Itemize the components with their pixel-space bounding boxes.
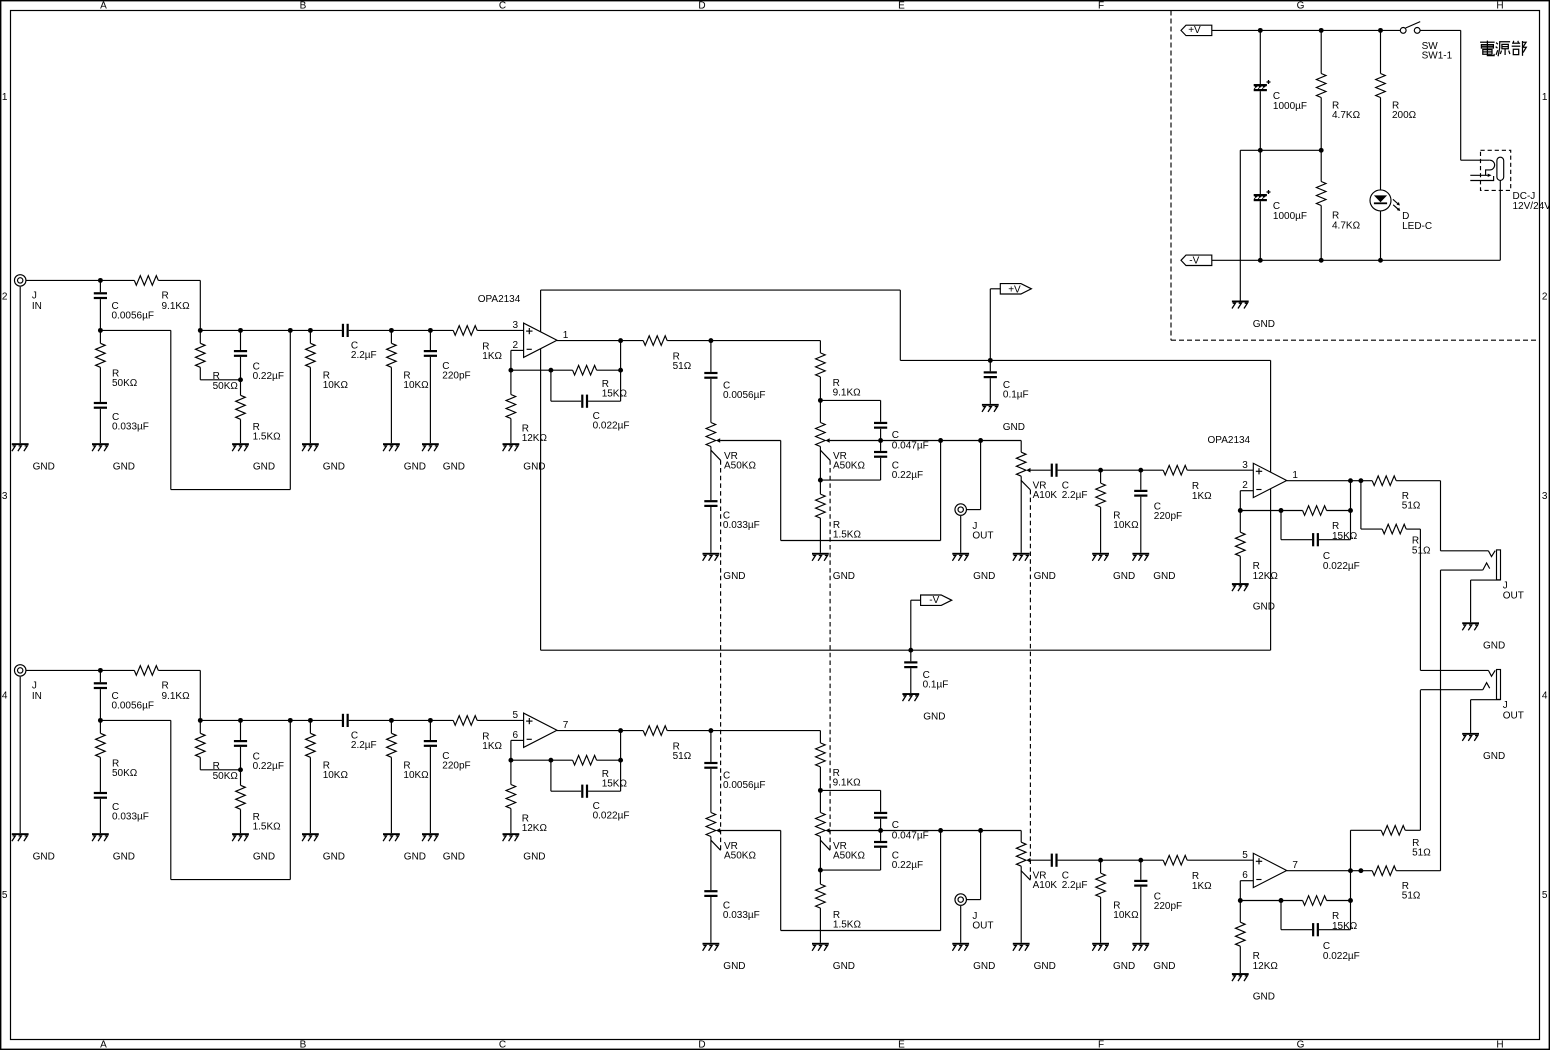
resistor R 1.5K bass — [816, 870, 862, 943]
svg-text:2.2µF: 2.2µF — [1062, 490, 1088, 501]
svg-text:GND: GND — [1003, 422, 1025, 433]
capacitor C 0.033uF — [94, 402, 149, 443]
svg-text:1000µF: 1000µF — [1273, 101, 1307, 112]
capacitor C 0.022uF feedback stage2 — [1281, 511, 1360, 572]
gang link volume pots — [1021, 480, 1031, 880]
capacitor C 0.22uF — [234, 330, 284, 382]
connector J IN ch1 — [14, 275, 100, 444]
svg-text:GND: GND — [443, 462, 465, 473]
svg-text:R: R — [162, 290, 169, 301]
power section boundary dashed — [1171, 11, 1540, 341]
resistor R 51 stage1 out — [643, 336, 713, 372]
wire switch to DC jack — [1461, 30, 1490, 160]
resistor R 200 — [1376, 30, 1417, 190]
svg-text:GND: GND — [1253, 319, 1275, 330]
capacitor C 220pF — [424, 330, 471, 443]
svg-text:51Ω: 51Ω — [673, 361, 692, 372]
resistor R 12K stage2 — [1236, 511, 1279, 584]
power flag +V (supply) — [1181, 25, 1400, 36]
capacitor C 0.022uF feedback — [551, 760, 630, 821]
svg-text:1.5KΩ: 1.5KΩ — [253, 822, 282, 833]
svg-text:A50KΩ: A50KΩ — [724, 851, 756, 862]
svg-text:H: H — [1496, 0, 1503, 11]
svg-text:50KΩ: 50KΩ — [213, 771, 239, 782]
svg-text:GND: GND — [923, 711, 945, 722]
resistor R 1.5K — [236, 380, 281, 443]
svg-text:LED-C: LED-C — [1402, 221, 1432, 232]
capacitor C 220pF stage2 — [1134, 860, 1182, 943]
svg-text:1KΩ: 1KΩ — [482, 741, 502, 752]
svg-text:GND: GND — [1153, 571, 1175, 582]
svg-text:12KΩ: 12KΩ — [522, 823, 548, 834]
ground (-V decoupling) — [902, 693, 945, 722]
svg-text:51Ω: 51Ω — [673, 751, 692, 762]
svg-text:9.1KΩ: 9.1KΩ — [833, 777, 862, 788]
wire stage2 bus — [1101, 468, 1254, 473]
resistor R 9.1K bass — [711, 731, 861, 793]
svg-text:0.22µF: 0.22µF — [892, 860, 923, 871]
wire detour under — [100, 328, 292, 490]
svg-text:GND: GND — [1113, 961, 1135, 972]
resistor R 50K shunt — [96, 720, 138, 792]
svg-text:1KΩ: 1KΩ — [1192, 491, 1212, 502]
svg-text:G: G — [1297, 1040, 1305, 1050]
svg-text:0.022µF: 0.022µF — [1323, 951, 1360, 962]
capacitor C 2.2uF coupling — [342, 714, 377, 751]
svg-text:50KΩ: 50KΩ — [112, 768, 138, 779]
svg-text:2.2µF: 2.2µF — [351, 740, 377, 751]
svg-text:SW1-1: SW1-1 — [1422, 51, 1453, 62]
resistor R 4.7K upper — [1316, 30, 1360, 150]
svg-text:C: C — [892, 430, 899, 441]
wire output node — [557, 338, 643, 373]
connector J OUT pre — [955, 831, 994, 943]
ground (R 1.5K bass) — [812, 943, 855, 972]
svg-text:4.7KΩ: 4.7KΩ — [1332, 110, 1361, 121]
svg-text:10KΩ: 10KΩ — [323, 380, 349, 391]
wire output node stage2 — [1287, 478, 1364, 510]
svg-text:GND: GND — [404, 462, 426, 473]
svg-text:3: 3 — [1542, 491, 1548, 502]
resistor R 50K series-jog — [196, 330, 243, 392]
resistor R 50K series-jog — [196, 720, 243, 782]
svg-text:50KΩ: 50KΩ — [213, 381, 239, 392]
svg-text:A: A — [100, 1040, 107, 1050]
power flag +V (amp) — [988, 284, 1032, 363]
svg-text:12KΩ: 12KΩ — [1253, 571, 1279, 582]
resistor R 15K feedback — [511, 755, 628, 789]
resistor R 51 ch1 to jack2 — [1361, 481, 1431, 671]
capacitor C 0.0056uF treble — [704, 731, 765, 813]
resistor R 51 stage1 out — [643, 726, 713, 762]
wire mid node — [881, 438, 1022, 452]
ground (+V decoupling) — [982, 404, 1025, 433]
svg-text:0.047µF: 0.047µF — [892, 831, 929, 842]
svg-text:1: 1 — [1292, 470, 1298, 481]
svg-text:7: 7 — [1292, 860, 1298, 871]
svg-text:GND: GND — [1483, 751, 1505, 762]
wire detour under — [100, 718, 292, 880]
svg-text:4.7KΩ: 4.7KΩ — [1332, 220, 1361, 231]
svg-text:2: 2 — [1542, 292, 1548, 303]
svg-text:GND: GND — [1483, 641, 1505, 652]
ground (J IN) — [12, 443, 55, 472]
ground (R 12K stage2) — [1232, 973, 1275, 1002]
svg-text:7: 7 — [563, 720, 569, 731]
svg-text:0.033µF: 0.033µF — [723, 910, 760, 921]
resistor R 12K — [506, 370, 547, 444]
svg-text:GND: GND — [33, 462, 55, 473]
capacitor C 0.1uF +V decoupling — [984, 360, 1029, 404]
resistor R 9.1K bass — [711, 341, 861, 403]
wire output node stage2 — [1287, 868, 1364, 873]
resistor R 51 ch2 to jack1 ring — [1361, 570, 1441, 902]
svg-text:GND: GND — [833, 571, 855, 582]
svg-text:OUT: OUT — [1503, 591, 1524, 602]
svg-text:J: J — [32, 290, 37, 301]
power flag -V (amp) — [908, 595, 951, 653]
ground (R 10K b) — [383, 833, 426, 862]
svg-text:12KΩ: 12KΩ — [1253, 961, 1279, 972]
svg-text:0.1µF: 0.1µF — [1003, 390, 1029, 401]
svg-text:GND: GND — [1034, 961, 1056, 972]
svg-text:GND: GND — [323, 462, 345, 473]
svg-text:GND: GND — [323, 852, 345, 863]
svg-text:51Ω: 51Ω — [1412, 545, 1431, 556]
capacitor C 220pF — [424, 720, 471, 833]
svg-text:GND: GND — [973, 571, 995, 582]
svg-text:4: 4 — [1542, 691, 1548, 702]
potentiometer VR A50K bass — [816, 400, 881, 482]
svg-text:1KΩ: 1KΩ — [482, 351, 502, 362]
op-amp U1b OPA2134 label — [1208, 435, 1251, 446]
svg-text:50KΩ: 50KΩ — [112, 378, 138, 389]
wire -in stage2 — [1238, 491, 1253, 513]
svg-text:GND: GND — [723, 961, 745, 972]
svg-text:A10K: A10K — [1033, 490, 1058, 501]
ground (R 1.5K) — [232, 443, 275, 472]
ground (R 1.5K) — [232, 833, 275, 862]
ground (R 12K stage2) — [1232, 583, 1275, 612]
svg-text:10KΩ: 10KΩ — [403, 770, 429, 781]
resistor R 4.7K lower — [1316, 150, 1360, 260]
wire -in stage2 — [1238, 881, 1253, 903]
svg-text:220pF: 220pF — [442, 371, 470, 382]
resistor R 9.1K input — [100, 276, 200, 312]
svg-text:GND: GND — [113, 462, 135, 473]
resistor R 10K stage2 — [1096, 470, 1139, 553]
svg-text:2: 2 — [1242, 480, 1248, 491]
svg-text:1KΩ: 1KΩ — [1192, 881, 1212, 892]
svg-text:15KΩ: 15KΩ — [602, 389, 628, 400]
svg-text:A: A — [100, 0, 107, 11]
capacitor C 2.2uF coupling — [342, 324, 377, 361]
resistor R 12K — [506, 760, 547, 834]
capacitor C 0.022uF feedback — [551, 370, 630, 431]
potentiometer VR A50K bass — [816, 790, 881, 872]
capacitor C 0.033uF treble — [704, 500, 760, 553]
resistor R 10K stage2 — [1096, 860, 1139, 943]
svg-text:0.1µF: 0.1µF — [923, 680, 949, 691]
connector J IN ch2 — [14, 665, 100, 834]
svg-text:IN: IN — [32, 691, 42, 702]
svg-text:GND: GND — [523, 462, 545, 473]
capacitor C 0.033uF — [94, 792, 149, 833]
svg-text:3: 3 — [2, 491, 8, 502]
op-amp stage2 pins 3/2/1 — [1242, 460, 1298, 498]
svg-text:1: 1 — [1542, 92, 1548, 103]
svg-text:10KΩ: 10KΩ — [1113, 910, 1139, 921]
resistor R 10K b — [387, 330, 430, 443]
svg-text:GND: GND — [404, 852, 426, 863]
capacitor C 2.2uF out-coupling — [1051, 854, 1103, 891]
ground (R 10K a) — [302, 833, 345, 862]
svg-text:10KΩ: 10KΩ — [323, 770, 349, 781]
op-amp stage2 pins 5/6/7 — [1242, 850, 1298, 888]
resistor R 9.1K input — [100, 666, 200, 702]
resistor R 1K stage2 — [1163, 855, 1212, 891]
ground (R 10K stage2) — [1092, 553, 1135, 582]
capacitor C 0.0056uF input — [94, 280, 154, 330]
diode D LED-C — [1370, 190, 1432, 260]
capacitor C 1000uF lower — [1254, 150, 1307, 260]
ground (R 12K) — [503, 443, 546, 472]
svg-text:IN: IN — [32, 301, 42, 312]
svg-text:3: 3 — [1242, 460, 1248, 471]
svg-text:GND: GND — [1113, 571, 1135, 582]
svg-text:10KΩ: 10KΩ — [403, 380, 429, 391]
svg-text:0.0056µF: 0.0056µF — [112, 310, 154, 321]
svg-text:1.5KΩ: 1.5KΩ — [833, 919, 862, 930]
wire mid rail — [1240, 148, 1323, 301]
svg-text:12V/24V: 12V/24V — [1513, 201, 1550, 212]
capacitor C 0.033uF treble — [704, 890, 760, 943]
ground (jack1) — [1462, 622, 1505, 651]
svg-text:6: 6 — [513, 730, 519, 741]
svg-text:C: C — [499, 0, 506, 11]
op-amp U1a OPA2134 label — [478, 294, 521, 305]
svg-text:E: E — [898, 1040, 905, 1050]
capacitor C 0.1uF -V decoupling — [904, 650, 948, 693]
capacitor C 1000uF upper — [1254, 30, 1307, 150]
svg-text:D: D — [698, 1040, 705, 1050]
connector J OUT pre — [955, 441, 994, 553]
svg-text:2.2µF: 2.2µF — [1062, 880, 1088, 891]
resistor R 12K stage2 — [1236, 901, 1279, 974]
potentiometer VR A10K volume — [1016, 842, 1057, 943]
svg-text:C: C — [892, 820, 899, 831]
svg-text:OUT: OUT — [972, 920, 993, 931]
svg-text:0.022µF: 0.022µF — [593, 811, 630, 822]
connector DC-J barrel jack — [1470, 150, 1550, 260]
potentiometer VR A50K treble — [706, 423, 781, 501]
svg-text:220pF: 220pF — [1154, 511, 1182, 522]
ground (VR A10K) — [1013, 943, 1056, 972]
resistor R 51 ch2 to jack2 ring — [1351, 690, 1432, 871]
svg-text:GND: GND — [253, 462, 275, 473]
wire main bus — [198, 718, 524, 723]
potentiometer VR A50K treble — [706, 813, 781, 891]
svg-text:GND: GND — [973, 961, 995, 972]
svg-text:1000µF: 1000µF — [1273, 211, 1307, 222]
svg-text:0.0056µF: 0.0056µF — [723, 780, 765, 791]
capacitor C 0.047uF bass — [820, 790, 928, 841]
wire -in — [508, 350, 523, 372]
svg-text:0.022µF: 0.022µF — [593, 421, 630, 432]
wire treble wiper to out node — [781, 441, 941, 541]
svg-text:0.22µF: 0.22µF — [253, 761, 284, 772]
svg-text:0.033µF: 0.033µF — [723, 520, 760, 531]
svg-text:0.22µF: 0.22µF — [253, 371, 284, 382]
svg-text:0.0056µF: 0.0056µF — [112, 700, 154, 711]
resistor R 1K to +in — [453, 716, 502, 753]
svg-text:2.2µF: 2.2µF — [351, 350, 377, 361]
op-amp stage1 pins 3/2/1 — [513, 320, 569, 358]
ground (VR A10K) — [1013, 553, 1056, 582]
capacitor C 2.2uF out-coupling — [1051, 464, 1103, 501]
svg-text:GND: GND — [443, 852, 465, 863]
svg-text:5: 5 — [1242, 850, 1248, 861]
svg-text:GND: GND — [833, 961, 855, 972]
wire — [199, 280, 201, 330]
capacitor C 0.022uF feedback stage2 — [1281, 901, 1360, 962]
svg-text:GND: GND — [1253, 991, 1275, 1002]
resistor R 1.5K — [236, 770, 281, 833]
svg-text:OUT: OUT — [972, 530, 993, 541]
svg-text:GND: GND — [1253, 601, 1275, 612]
node input junction — [98, 278, 103, 283]
svg-text:51Ω: 51Ω — [1412, 848, 1431, 859]
resistor R 15K feedback stage2 — [1240, 506, 1357, 542]
capacitor C 0.22uF bass — [820, 441, 923, 482]
svg-text:GND: GND — [1153, 961, 1175, 972]
ground (C 0.033uF) — [92, 833, 135, 862]
svg-text:10KΩ: 10KΩ — [1113, 520, 1139, 531]
power flag -V (supply) — [1181, 255, 1500, 266]
svg-text:15KΩ: 15KΩ — [602, 779, 628, 790]
svg-text:E: E — [898, 0, 905, 11]
svg-text:6: 6 — [1242, 870, 1248, 881]
resistor R 51 ch1 tip — [1361, 476, 1441, 551]
svg-text:0.0056µF: 0.0056µF — [723, 390, 765, 401]
svg-text:R: R — [162, 680, 169, 691]
wire stage2 bus — [1101, 858, 1254, 863]
svg-text:220pF: 220pF — [442, 761, 470, 772]
ground (power) — [1232, 301, 1275, 330]
node bus-left junction — [98, 328, 103, 333]
svg-text:200Ω: 200Ω — [1392, 110, 1417, 121]
svg-text:0.033µF: 0.033µF — [112, 422, 149, 433]
power section title 電源部 — [1480, 41, 1526, 57]
svg-text:0.047µF: 0.047µF — [892, 441, 929, 452]
svg-text:9.1KΩ: 9.1KΩ — [162, 301, 191, 312]
switch SW SW1-1 — [1400, 22, 1460, 62]
svg-text:GND: GND — [1034, 571, 1056, 582]
svg-text:5: 5 — [1542, 890, 1548, 901]
svg-text:0.033µF: 0.033µF — [112, 812, 149, 823]
svg-text:OPA2134: OPA2134 — [1208, 435, 1251, 446]
gang link treble pots — [711, 450, 721, 850]
capacitor C 0.22uF bass — [820, 831, 923, 872]
ground (R 10K b) — [383, 443, 426, 472]
resistor R 10K b — [387, 720, 430, 833]
svg-text:A50KΩ: A50KΩ — [724, 461, 756, 472]
svg-text:1.5KΩ: 1.5KΩ — [833, 529, 862, 540]
ground (R 10K stage2) — [1092, 943, 1135, 972]
resistor R 1.5K bass — [816, 480, 862, 553]
wire mid node — [881, 828, 1022, 842]
svg-text:J: J — [32, 680, 37, 691]
ground (J OUT pre) — [952, 553, 995, 582]
connector J OUT jack2 — [1420, 670, 1523, 733]
node input junction — [98, 668, 103, 673]
svg-text:GND: GND — [33, 852, 55, 863]
svg-text:H: H — [1496, 1040, 1503, 1050]
svg-text:9.1KΩ: 9.1KΩ — [833, 387, 862, 398]
ground (J OUT pre) — [952, 943, 995, 972]
op-amp stage1 pins 5/6/7 — [513, 710, 569, 748]
wire treble wiper to out node — [781, 831, 941, 931]
svg-text:9.1KΩ: 9.1KΩ — [162, 691, 191, 702]
svg-text:-V: -V — [929, 595, 939, 606]
svg-text:A50KΩ: A50KΩ — [833, 851, 865, 862]
svg-text:A10K: A10K — [1033, 880, 1058, 891]
ground (jack2) — [1462, 733, 1505, 762]
svg-text:4: 4 — [2, 691, 8, 702]
svg-text:1: 1 — [563, 330, 569, 341]
capacitor C 0.047uF bass — [820, 400, 928, 451]
svg-text:0.022µF: 0.022µF — [1323, 561, 1360, 572]
ground (R 10K a) — [302, 443, 345, 472]
resistor R 1K to +in — [453, 326, 502, 363]
svg-text:1: 1 — [2, 92, 8, 103]
svg-text:OPA2134: OPA2134 — [478, 294, 521, 305]
svg-text:F: F — [1098, 0, 1104, 11]
gang link bass pots — [820, 450, 830, 850]
resistor R 15K feedback stage2 — [1240, 871, 1357, 932]
ground (R 1.5K bass) — [812, 553, 855, 582]
node bus-left junction — [98, 718, 103, 723]
ground (C 220pF) — [422, 443, 465, 472]
ground (J IN) — [12, 833, 55, 862]
capacitor C 0.0056uF treble — [704, 341, 765, 423]
svg-text:51Ω: 51Ω — [1402, 891, 1421, 902]
svg-text:G: G — [1297, 0, 1305, 11]
ground (C 220pF stage2) — [1132, 943, 1175, 972]
svg-text:5: 5 — [513, 710, 519, 721]
ground (treble pot) — [703, 943, 746, 972]
wire -in — [508, 740, 523, 762]
ground (C 220pF stage2) — [1132, 553, 1175, 582]
svg-text:+V: +V — [1188, 25, 1201, 36]
ground (treble pot) — [703, 553, 746, 582]
svg-text:51Ω: 51Ω — [1402, 501, 1421, 512]
svg-text:+V: +V — [1008, 284, 1021, 295]
ground (C 220pF) — [422, 833, 465, 862]
svg-text:GND: GND — [113, 852, 135, 863]
svg-text:1.5KΩ: 1.5KΩ — [253, 432, 282, 443]
ground (C 0.033uF) — [92, 443, 135, 472]
svg-text:B: B — [300, 0, 307, 11]
resistor R 15K feedback — [511, 365, 628, 399]
svg-text:GND: GND — [523, 852, 545, 863]
wire output node — [557, 728, 643, 763]
resistor R 50K shunt — [96, 330, 138, 402]
svg-text:OUT: OUT — [1503, 710, 1524, 721]
svg-text:GND: GND — [253, 852, 275, 863]
wire main bus — [198, 328, 524, 333]
ground (R 12K) — [503, 833, 546, 862]
